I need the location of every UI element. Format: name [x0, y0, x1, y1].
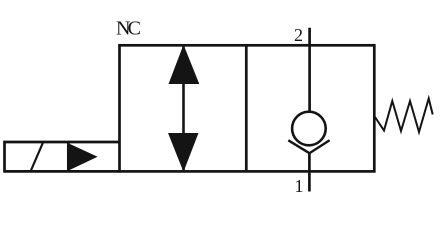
port 1 line [308, 153, 311, 192]
check valve ball circle [292, 112, 326, 146]
flow path arrow line (left square) [182, 46, 185, 172]
arrowhead up [169, 45, 200, 84]
solenoid arrow triangle [68, 143, 97, 170]
solenoid diagonal slash [31, 143, 44, 172]
return spring [375, 99, 433, 133]
solenoid arrow base line [67, 142, 70, 171]
position divider line [245, 45, 248, 171]
check valve seat V [288, 140, 329, 153]
port 2 line [308, 28, 311, 112]
svg-text:1: 1 [295, 176, 304, 196]
arrowhead down [168, 133, 199, 172]
solenoid A1 box [5, 142, 120, 171]
svg-text:NC: NC [116, 18, 141, 40]
svg-text:2: 2 [294, 25, 303, 45]
valve body outline [120, 45, 375, 171]
